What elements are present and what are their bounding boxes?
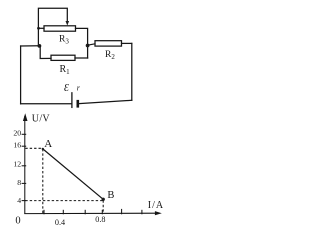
- battery short plate (negative): [77, 101, 80, 106]
- svg-text:Ɛ: Ɛ: [64, 83, 69, 94]
- node J1: [38, 44, 42, 48]
- svg-text:0: 0: [15, 215, 20, 226]
- svg-text:r: r: [77, 84, 81, 93]
- I axis arrowhead: [155, 211, 162, 215]
- svg-text:B: B: [107, 190, 114, 201]
- svg-text:I/A: I/A: [148, 200, 164, 211]
- load line A-B: [43, 149, 103, 199]
- dashed line B down to I axis: [102, 200, 104, 213]
- wire R1 right lead: [75, 57, 88, 59]
- wire R1 drop from node J1: [40, 46, 51, 59]
- node J2: [86, 44, 90, 48]
- point A: [42, 148, 44, 150]
- I axis tick 0.8: [101, 210, 103, 215]
- svg-text:R2: R2: [105, 50, 115, 61]
- point B: [102, 198, 105, 201]
- I axis tick 1.0: [121, 209, 123, 214]
- battery long plate (positive): [71, 93, 73, 108]
- wire R3 left lead: [38, 27, 44, 29]
- wire bottom left: [21, 103, 71, 105]
- wire R2 right lead: [122, 42, 132, 44]
- svg-text:U/V: U/V: [32, 114, 51, 125]
- dashed line U=4 to B: [25, 200, 103, 202]
- svg-text:20: 20: [13, 129, 21, 138]
- svg-text:R1: R1: [60, 64, 71, 76]
- U axis arrowhead: [23, 113, 28, 121]
- I axis tick 1.2: [141, 210, 143, 215]
- wire top loop (left vertical + top horizontal + wiper drop): [38, 8, 67, 46]
- graph U axis: [24, 116, 26, 214]
- svg-text:16: 16: [13, 141, 21, 150]
- I axis tick 0.4: [62, 210, 64, 215]
- wire R3 right lead down to node J2 and on to R1 row: [76, 28, 88, 58]
- resistor R3: [44, 26, 76, 31]
- I axis tick 0.6: [84, 210, 86, 215]
- wire left rail: [20, 46, 22, 104]
- graph I axis: [24, 212, 157, 214]
- dashed line A down to I axis: [42, 149, 44, 213]
- node R3 left terminal: [37, 27, 40, 30]
- dashed line U=16 to A: [25, 147, 43, 149]
- U axis tick 20: [22, 133, 27, 135]
- svg-text:0.8: 0.8: [95, 215, 105, 224]
- U axis tick 12: [22, 165, 27, 167]
- svg-text:8: 8: [17, 178, 21, 187]
- wire bottom right: [80, 100, 132, 103]
- wiper arrowhead onto R3: [66, 21, 70, 26]
- U axis tick 8: [22, 182, 27, 184]
- svg-text:R3: R3: [59, 34, 69, 45]
- wire main row left: [21, 45, 40, 47]
- resistor R2: [95, 41, 122, 46]
- I axis tick 0.2: [43, 210, 45, 215]
- svg-text:12: 12: [13, 159, 21, 168]
- svg-text:0.4: 0.4: [55, 218, 65, 227]
- resistor R1: [51, 55, 75, 60]
- svg-text:4: 4: [17, 196, 21, 205]
- U axis tick 4: [22, 200, 27, 202]
- wire R2 left lead: [88, 44, 95, 45]
- U axis tick 16: [22, 145, 27, 147]
- svg-text:A: A: [44, 138, 52, 150]
- wire right rail: [131, 43, 133, 100]
